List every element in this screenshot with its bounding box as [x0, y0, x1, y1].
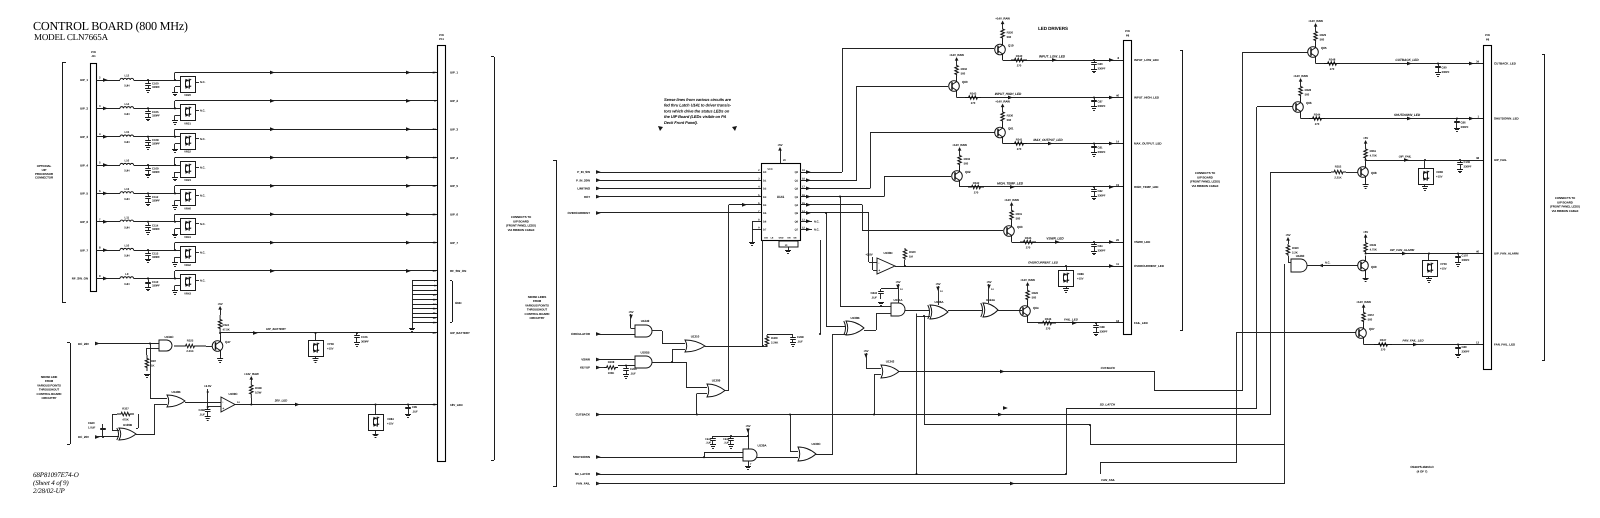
svg-text:+15V: +15V — [1440, 267, 1447, 271]
svg-text:+14V_RAW: +14V_RAW — [1020, 278, 1035, 282]
connector P11 bar — [438, 46, 446, 462]
ground pin cluster wires — [412, 280, 437, 282]
svg-text:8: 8 — [1118, 56, 1120, 60]
svg-text:(4 OF 7): (4 OF 7) — [1417, 470, 1428, 474]
wire FAN_FAIL_LED — [1363, 343, 1365, 345]
ground VR41 — [175, 228, 181, 230]
svg-text:HIGH_TEMP_LED: HIGH_TEMP_LED — [997, 182, 1024, 186]
svg-text:EN: EN — [788, 237, 791, 240]
svg-text:R328: R328 — [1305, 88, 1312, 92]
svg-text:N.C.: N.C. — [200, 137, 206, 141]
svg-text:FAN_FAIL: FAN_FAIL — [576, 482, 590, 486]
svg-text:1UH: 1UH — [124, 169, 129, 173]
svg-text:UIP_6: UIP_6 — [450, 212, 458, 216]
wire VR21 N.C. stub — [195, 110, 199, 112]
svg-text:Q67: Q67 — [1369, 327, 1375, 331]
wire junction vertical 2 — [840, 197, 842, 307]
capacitor C840 — [102, 436, 104, 438]
wire U141 Q2 to driver — [800, 188, 870, 190]
resistor R348 — [1324, 62, 1340, 66]
wire OVERCURRENT_LED — [895, 266, 1123, 268]
svg-text:30: 30 — [433, 212, 436, 216]
wire INPUT_LOW_LED — [1002, 59, 1004, 62]
svg-text:Q62: Q62 — [965, 170, 971, 174]
svg-text:R332: R332 — [961, 67, 968, 71]
wire UIP_4 to connector P11 — [174, 158, 176, 166]
svg-text:+14V_RAW: +14V_RAW — [1004, 198, 1019, 202]
svg-text:N.C.: N.C. — [200, 250, 206, 254]
svg-text:U130C: U130C — [811, 442, 821, 446]
svg-text:68P81097E74-O: 68P81097E74-O — [33, 471, 79, 479]
gate U136A — [930, 305, 948, 319]
svg-text:R343: R343 — [970, 92, 977, 96]
svg-text:330PF: 330PF — [152, 227, 160, 231]
svg-text:U124A: U124A — [986, 298, 996, 302]
svg-text:330PF: 330PF — [1462, 350, 1470, 354]
wire Q66 base — [1257, 106, 1293, 108]
svg-text:34: 34 — [1476, 59, 1479, 63]
transistor Q67 — [1356, 328, 1367, 339]
svg-text:(Sheet 4 of 9): (Sheet 4 of 9) — [33, 479, 69, 487]
ground VR23 — [175, 172, 181, 174]
svg-text:1/2W: 1/2W — [255, 391, 262, 395]
svg-text:1UH: 1UH — [124, 282, 129, 286]
transient suppressor VR84 — [374, 403, 376, 405]
resistor R343 — [965, 96, 981, 100]
svg-text:330PF: 330PF — [1464, 165, 1472, 169]
svg-text:20: 20 — [783, 159, 786, 162]
svg-text:P_IN_20W: P_IN_20W — [576, 178, 590, 182]
svg-text:VR40: VR40 — [184, 206, 191, 210]
svg-text:U130B: U130B — [850, 316, 860, 320]
svg-text:13: 13 — [802, 218, 805, 221]
svg-text:330PF: 330PF — [1100, 330, 1108, 334]
svg-text:+: + — [222, 407, 224, 411]
gate U1260 — [1291, 259, 1307, 272]
power +14V_RAW at Q62 — [959, 150, 961, 155]
svg-text:2.21K: 2.21K — [1334, 176, 1341, 180]
svg-text:330PF: 330PF — [152, 255, 160, 259]
svg-text:270: 270 — [1017, 64, 1022, 68]
svg-text:UIP_FAIL: UIP_FAIL — [1494, 158, 1507, 162]
wire INPUT_HIGH_LED — [956, 96, 958, 98]
svg-text:330PF: 330PF — [152, 198, 160, 202]
wire U141 Q1 to driver — [800, 180, 857, 182]
capacitor C88 — [1095, 322, 1097, 324]
svg-text:DC_26V: DC_26V — [78, 342, 89, 346]
svg-text:UIP_5: UIP_5 — [450, 184, 458, 188]
svg-text:U139A: U139A — [757, 444, 767, 448]
op-amp U109C — [221, 397, 235, 412]
capacitor C843 — [880, 289, 882, 292]
wire to U130B in1 — [826, 213, 828, 327]
svg-text:VIA RIBBON CABLE: VIA RIBBON CABLE — [1552, 209, 1579, 213]
svg-text:4: 4 — [99, 132, 101, 136]
resistor R352 — [1331, 170, 1346, 174]
svg-text:R345: R345 — [1025, 236, 1032, 240]
svg-text:330PF: 330PF — [1098, 104, 1106, 108]
svg-text:330PF: 330PF — [152, 85, 160, 89]
svg-text:UIP_3: UIP_3 — [450, 127, 458, 131]
capacitor C85 — [407, 403, 409, 405]
capacitor C113 — [148, 251, 150, 254]
svg-text:SHUTDOWN_LED: SHUTDOWN_LED — [1494, 117, 1520, 121]
resistor R409 — [765, 335, 769, 347]
svg-text:U1249: U1249 — [641, 319, 650, 323]
svg-text:330PF: 330PF — [1098, 249, 1106, 253]
svg-text:UIP_1: UIP_1 — [80, 78, 88, 82]
svg-text:FAN_FAIL_LED: FAN_FAIL_LED — [1494, 343, 1516, 347]
capacitor C81 — [1093, 142, 1095, 144]
svg-text:L11: L11 — [125, 215, 130, 219]
svg-text:N.C.: N.C. — [814, 228, 820, 232]
inductor L10 — [120, 248, 134, 250]
capacitor C106 — [356, 332, 358, 334]
resistor R320 — [1001, 28, 1005, 40]
transistor Q61 — [995, 127, 1006, 138]
svg-text:OVERCURRENT_LED: OVERCURRENT_LED — [1134, 264, 1165, 268]
svg-text:18V_LED: 18V_LED — [450, 403, 463, 407]
svg-text:L12: L12 — [124, 74, 129, 78]
resistor R341 — [1011, 142, 1027, 146]
svg-text:R357: R357 — [1368, 313, 1375, 317]
resistor R320b — [903, 248, 907, 260]
svg-text:UIP_FAN_ALARM: UIP_FAN_ALARM — [1494, 252, 1519, 256]
ground Q69 emitter — [1365, 276, 1367, 279]
svg-text:UIP_2: UIP_2 — [80, 107, 88, 111]
resistor R340 — [1011, 58, 1027, 62]
svg-text:+5V: +5V — [863, 349, 868, 353]
svg-text:FAIL_LED: FAIL_LED — [1064, 318, 1079, 322]
svg-text:-: - — [878, 261, 880, 265]
power +14V_RAW at Q66 — [1300, 81, 1302, 86]
svg-text:CIRCUITRY: CIRCUITRY — [529, 316, 544, 320]
svg-text:44: 44 — [433, 156, 436, 160]
svg-text:U1310: U1310 — [691, 335, 700, 339]
wire U139A second input — [703, 456, 705, 458]
gate U124A — [983, 303, 998, 317]
svg-text:+14V_RAW: +14V_RAW — [244, 372, 259, 376]
wire U141 Q0 to driver — [800, 172, 842, 174]
wire CUTBACK to U1309 in2 — [696, 394, 698, 415]
svg-text:560: 560 — [1032, 296, 1037, 300]
svg-text:R342: R342 — [973, 181, 980, 185]
latch U141 — [762, 164, 801, 241]
svg-text:VR22: VR22 — [184, 150, 191, 154]
gate U130C — [798, 447, 816, 461]
svg-text:26V_LED: 26V_LED — [274, 399, 288, 403]
transistor Q62 — [952, 171, 963, 182]
svg-text:43: 43 — [433, 241, 436, 245]
svg-text:VR23: VR23 — [184, 178, 191, 182]
wire UIP_FAIL — [1365, 159, 1367, 161]
connector J11 left box — [91, 64, 97, 292]
svg-text:R333: R333 — [964, 157, 971, 161]
svg-text:U134C: U134C — [164, 335, 174, 339]
wire Q67 base — [1236, 332, 1356, 334]
svg-text:11: 11 — [1116, 262, 1119, 266]
svg-text:9: 9 — [99, 274, 101, 278]
svg-text:26: 26 — [1116, 238, 1119, 242]
svg-text:Q64: Q64 — [1033, 306, 1039, 310]
svg-text:7: 7 — [750, 463, 752, 466]
svg-text:270: 270 — [1026, 246, 1031, 250]
wire L16 to junction — [134, 165, 180, 167]
wire UIP_BATTERY — [219, 332, 221, 334]
svg-text:2/28/02-UP: 2/28/02-UP — [33, 487, 66, 495]
svg-text:1: 1 — [1478, 114, 1480, 118]
ground cluster ground — [412, 322, 414, 328]
gate U1310 — [685, 340, 705, 352]
svg-text:560: 560 — [1320, 38, 1325, 42]
svg-text:R348: R348 — [1329, 58, 1336, 62]
wire VR22 N.C. stub — [195, 138, 199, 140]
wire FAIL_LED — [1027, 321, 1029, 323]
svg-text:UIP_FAIL: UIP_FAIL — [1399, 155, 1412, 159]
wire U131A to U136A — [905, 310, 930, 312]
svg-text:2.21K: 2.21K — [186, 349, 193, 353]
wire UIP_6 row — [97, 221, 121, 223]
svg-text:U140B: U140B — [171, 390, 181, 394]
power +14V_RAW at Q61 — [1002, 106, 1004, 111]
capacitor C89 — [1457, 343, 1459, 345]
svg-text:C82: C82 — [1098, 189, 1103, 193]
svg-text:270: 270 — [1046, 327, 1051, 331]
svg-text:Deck Front Panel).: Deck Front Panel). — [664, 120, 698, 125]
inductor L14 — [120, 107, 134, 109]
power +14V_RAW at Q60 — [956, 60, 958, 65]
ground VR42 — [175, 257, 181, 259]
power +14V_RAW at Q67 — [1363, 307, 1365, 312]
svg-text:CUTBACK: CUTBACK — [1101, 366, 1116, 370]
transient suppressor VR21 — [181, 105, 196, 121]
svg-text:2.24K: 2.24K — [771, 341, 778, 345]
svg-text:+5V: +5V — [777, 143, 782, 147]
capacitor C80 — [1093, 59, 1095, 61]
svg-text:SHUTDOWN_LED: SHUTDOWN_LED — [1394, 113, 1421, 117]
wire U141 Q6 N.C. — [800, 221, 812, 223]
svg-text:UIP_5: UIP_5 — [80, 192, 88, 196]
svg-text:R329: R329 — [1320, 33, 1327, 37]
svg-text:+14V_RAW: +14V_RAW — [995, 16, 1010, 20]
svg-text:.1UF: .1UF — [199, 413, 205, 417]
svg-text:560: 560 — [1368, 318, 1373, 322]
wire UIP_3 to connector P11 — [174, 129, 176, 137]
transient suppressor VR20 — [181, 77, 196, 93]
svg-text:330PF: 330PF — [1462, 258, 1470, 262]
svg-text:HOT: HOT — [584, 195, 590, 199]
svg-text:4.75K: 4.75K — [1370, 154, 1377, 158]
svg-text:the UIP Board (LEDs visible on: the UIP Board (LEDs visible on PA — [664, 114, 726, 119]
inductor L9 — [120, 277, 134, 279]
svg-text:SD_LATCH: SD_LATCH — [1100, 403, 1116, 407]
svg-text:KEYUP: KEYUP — [580, 366, 590, 370]
resistor R333 — [958, 154, 962, 166]
transient suppressor VR40 — [181, 190, 196, 206]
power +14V_RAW at U109C — [251, 379, 253, 382]
svg-text:14: 14 — [237, 401, 240, 404]
resistor R361 — [1364, 147, 1368, 160]
svg-text:+2.8V: +2.8V — [865, 253, 872, 257]
svg-text:330PF: 330PF — [152, 142, 160, 146]
svg-text:UIP_BATTERY: UIP_BATTERY — [450, 331, 470, 335]
gate U134C — [159, 340, 172, 351]
ground VR43 — [175, 285, 181, 287]
wire U139B out to U140B — [136, 434, 155, 436]
svg-text:UIP_4: UIP_4 — [80, 163, 88, 167]
wire UIP_2 row — [97, 108, 121, 110]
svg-text:270: 270 — [1017, 147, 1022, 151]
svg-text:U139B: U139B — [123, 423, 133, 427]
resistor R327 — [112, 414, 114, 431]
svg-text:560: 560 — [964, 162, 969, 166]
svg-text:270: 270 — [1330, 67, 1335, 71]
svg-text:N.C.: N.C. — [200, 165, 206, 169]
svg-text:R408: R408 — [608, 360, 615, 364]
svg-text:CIRCUITRY: CIRCUITRY — [41, 396, 56, 400]
svg-text:CUTBACK: CUTBACK — [576, 413, 591, 417]
svg-text:C81: C81 — [1098, 146, 1103, 150]
svg-text:3: 3 — [758, 177, 760, 180]
ground Q47 emitter — [220, 356, 222, 359]
wire CUTBACK out — [899, 371, 1155, 373]
svg-text:Q66: Q66 — [1306, 101, 1312, 105]
svg-text:FAN_FAIL_LED: FAN_FAIL_LED — [1402, 339, 1424, 343]
svg-text:Q63: Q63 — [1017, 225, 1023, 229]
svg-text:C88: C88 — [1100, 325, 1105, 329]
svg-text:UIP_6: UIP_6 — [80, 220, 88, 224]
wire UIP_6 to connector P11 — [174, 214, 176, 222]
power +5V at Q69 — [1365, 237, 1367, 242]
svg-text:C843: C843 — [871, 291, 878, 295]
svg-text:UIP_BATTERY: UIP_BATTERY — [266, 327, 287, 331]
svg-text:LED DRIVERS: LED DRIVERS — [1038, 26, 1068, 31]
svg-text:FAIL_LED: FAIL_LED — [1134, 321, 1149, 325]
svg-text:+2.6V: +2.6V — [204, 384, 211, 388]
svg-text:FAN_FAIL: FAN_FAIL — [1101, 478, 1115, 482]
svg-text:R352: R352 — [1335, 165, 1342, 169]
transient suppressor VY08 — [314, 332, 316, 334]
gate U1249 — [635, 325, 652, 337]
svg-text:+5V: +5V — [986, 280, 991, 284]
svg-text:J11: J11 — [91, 54, 96, 58]
svg-text:560: 560 — [1007, 35, 1012, 39]
transient suppressor VR43 — [181, 275, 196, 291]
transistor Q69 — [1358, 260, 1369, 271]
svg-text:U1309: U1309 — [712, 379, 721, 383]
wire CUTBACK to U130C in1 — [790, 415, 792, 452]
svg-text:N.C.: N.C. — [1325, 261, 1331, 265]
svg-text:+5V: +5V — [745, 424, 750, 428]
capacitor C109 — [148, 166, 150, 169]
resistor R342 — [968, 185, 984, 189]
resistor R338 — [250, 381, 254, 398]
inductor L15 — [120, 135, 134, 137]
capacitor C87 — [1093, 96, 1095, 98]
svg-text:2: 2 — [99, 76, 101, 80]
inductor L13 — [120, 192, 134, 194]
svg-text:HIGH_TEMP_LED: HIGH_TEMP_LED — [1134, 185, 1159, 189]
svg-text:UIP_2: UIP_2 — [450, 99, 458, 103]
svg-text:RF_SW_ON: RF_SW_ON — [450, 269, 466, 273]
svg-text:560: 560 — [1305, 93, 1310, 97]
brace connects to UIP board middle — [1182, 50, 1184, 330]
wire U141 Q5 to U130D — [800, 212, 869, 214]
svg-text:C94DPS 48450-O: C94DPS 48450-O — [1410, 465, 1434, 469]
wire U1249 to U1310 — [652, 330, 662, 332]
wire D6 D7 tie to ground — [752, 221, 761, 223]
svg-text:2: 2 — [758, 169, 760, 172]
transient suppressor VR41 — [181, 219, 196, 235]
svg-text:UIP_4: UIP_4 — [450, 156, 458, 160]
transistor Q63 — [1004, 226, 1015, 237]
svg-text:P11: P11 — [439, 37, 444, 41]
svg-text:560: 560 — [961, 72, 966, 76]
op-amp U130D — [877, 258, 895, 274]
capacitor C86 — [1456, 117, 1458, 119]
wire 26V_LED — [235, 404, 437, 406]
transistor Q64 — [1020, 306, 1031, 317]
svg-text:C90: C90 — [1442, 66, 1447, 70]
svg-text:U1260: U1260 — [1296, 254, 1305, 258]
svg-text:R349: R349 — [1370, 243, 1377, 247]
wire L15 to junction — [134, 136, 180, 138]
transient suppressor VY09 — [1428, 252, 1430, 254]
svg-text:.1UF: .1UF — [797, 340, 803, 344]
svg-text:CUTBACK_LED: CUTBACK_LED — [1494, 62, 1517, 66]
svg-text:+14V_RAW: +14V_RAW — [1356, 300, 1371, 304]
svg-text:+5V: +5V — [895, 280, 900, 284]
wire L11 to junction — [134, 221, 180, 223]
transient suppressor VR08 — [1424, 159, 1426, 161]
resistor R330 — [1001, 111, 1005, 123]
wire SD_LATCH out — [1066, 408, 1068, 474]
svg-text:1UH: 1UH — [124, 140, 129, 144]
svg-text:R325: R325 — [187, 339, 194, 343]
svg-text:18: 18 — [802, 177, 805, 180]
svg-text:OVERCURRENT_LED: OVERCURRENT_LED — [1028, 261, 1059, 265]
svg-text:R346: R346 — [1045, 317, 1052, 321]
wire U141 Q3 to driver — [800, 196, 884, 198]
wire VR42 N.C. stub — [195, 252, 199, 254]
transistor Q19 — [995, 44, 1006, 55]
svg-text:14: 14 — [940, 290, 943, 293]
svg-text:C80: C80 — [1098, 62, 1103, 66]
wire L14 to junction — [134, 108, 180, 110]
svg-text:CUTBACK_LED: CUTBACK_LED — [1395, 58, 1419, 62]
wire Q68 base — [1271, 172, 1331, 174]
wire UIP_1 row — [97, 80, 121, 82]
svg-text:330PF: 330PF — [152, 283, 160, 287]
svg-text:+15V: +15V — [1077, 277, 1084, 281]
svg-text:1UH: 1UH — [124, 254, 129, 258]
power +5V at Q68 — [1365, 143, 1367, 148]
wire MAX_OUTPUT_LED — [1002, 143, 1004, 144]
bracket GND group — [452, 281, 454, 322]
svg-text:CONNECTOR: CONNECTOR — [35, 176, 54, 180]
wire net4 out — [1090, 444, 1285, 446]
wire net3 out — [924, 424, 1090, 426]
svg-text:6: 6 — [99, 189, 101, 193]
svg-text:-: - — [222, 400, 224, 404]
svg-text:Q65: Q65 — [1321, 46, 1327, 50]
svg-text:+5V: +5V — [218, 302, 223, 306]
svg-text:+15V: +15V — [387, 422, 394, 426]
wire U130C out to U130B — [815, 454, 833, 456]
svg-text:1UH: 1UH — [124, 225, 129, 229]
inductor L12 — [120, 78, 134, 80]
wire VR23 N.C. stub — [195, 167, 199, 169]
